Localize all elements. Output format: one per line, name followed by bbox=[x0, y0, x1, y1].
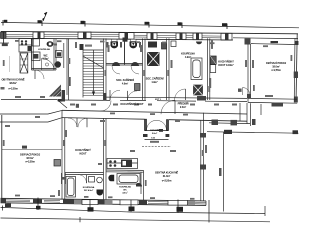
svg-text:KOUT 13.8m²: KOUT 13.8m² bbox=[218, 63, 233, 67]
svg-text:KOUT: KOUT bbox=[80, 152, 87, 156]
svg-text:2.3m²: 2.3m² bbox=[180, 105, 187, 109]
svg-text:4.9m²: 4.9m² bbox=[122, 192, 128, 195]
svg-text:1.2m²: 1.2m² bbox=[42, 57, 49, 61]
svg-text:4.9m²: 4.9m² bbox=[185, 55, 192, 59]
svg-text:v=2,55m: v=2,55m bbox=[271, 68, 281, 72]
svg-text:WC: WC bbox=[123, 190, 127, 192]
svg-text:18.0m²: 18.0m² bbox=[272, 65, 280, 69]
svg-text:31.0m²: 31.0m² bbox=[163, 174, 171, 178]
svg-text:4.9m²: 4.9m² bbox=[122, 82, 129, 86]
svg-text:v=2,55m: v=2,55m bbox=[8, 87, 18, 91]
svg-text:BYT 1: BYT 1 bbox=[155, 99, 162, 101]
svg-text:ZÁDVEŘÍ: ZÁDVEŘÍ bbox=[150, 129, 159, 132]
svg-text:1.9m²: 1.9m² bbox=[151, 80, 158, 84]
svg-text:v=2,55m: v=2,55m bbox=[162, 179, 172, 183]
svg-text:KOUPELNA: KOUPELNA bbox=[119, 186, 131, 189]
svg-text:18.8m²: 18.8m² bbox=[9, 81, 17, 85]
svg-text:KOUPELNA: KOUPELNA bbox=[181, 52, 195, 56]
svg-text:WC 4.9m²: WC 4.9m² bbox=[84, 189, 94, 192]
svg-text:v=2,55m: v=2,55m bbox=[25, 160, 35, 164]
svg-text:2.0m²: 2.0m² bbox=[152, 132, 158, 135]
svg-text:KOUPELNA: KOUPELNA bbox=[38, 48, 50, 51]
svg-text:16.5m²: 16.5m² bbox=[26, 156, 34, 160]
svg-text:KOUPELNA: KOUPELNA bbox=[83, 186, 95, 189]
